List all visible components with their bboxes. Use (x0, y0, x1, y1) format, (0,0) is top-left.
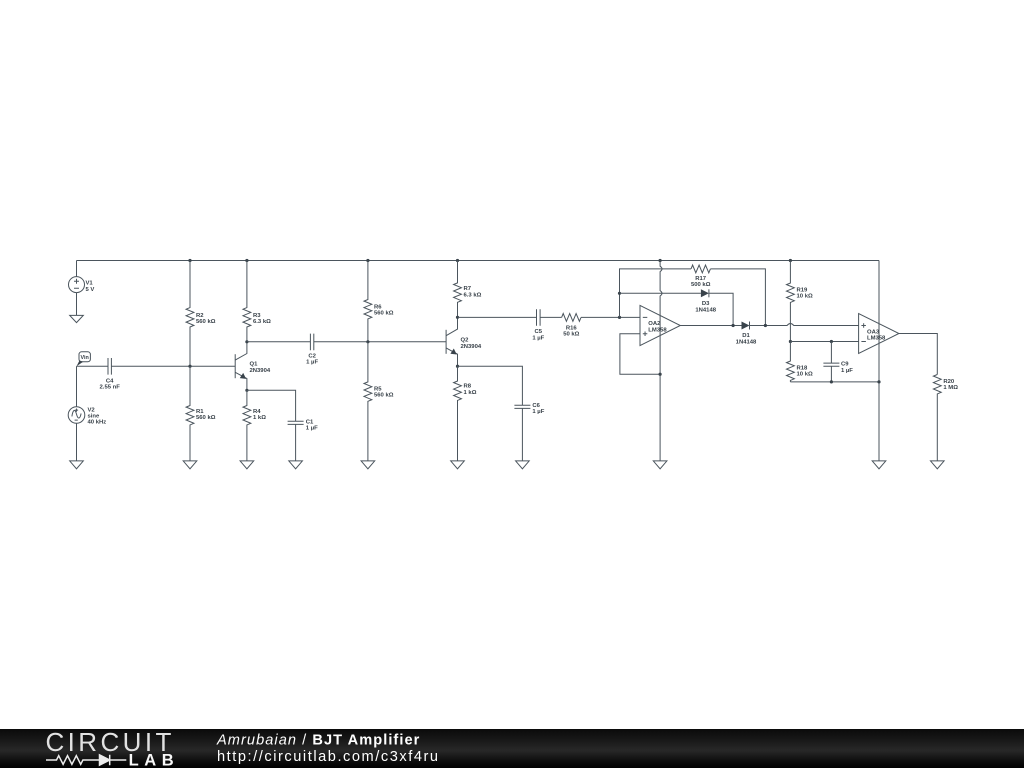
capacitor C2 (306, 334, 318, 366)
svg-text:R6: R6 (374, 304, 382, 310)
svg-text:V1: V1 (86, 281, 94, 287)
wire C6 to ground (521, 408, 523, 461)
svg-text:500 kΩ: 500 kΩ (691, 282, 711, 288)
resistor R17 (691, 265, 711, 288)
wire C1 to ground (295, 424, 297, 461)
resistor R8 (454, 366, 477, 461)
svg-text:Vin: Vin (81, 355, 89, 361)
capacitor C9 (823, 362, 853, 374)
ground below C1 (289, 461, 303, 469)
svg-text:1 µF: 1 µF (532, 409, 544, 415)
svg-text:OA3: OA3 (867, 329, 880, 335)
capacitor C5 (532, 309, 544, 341)
svg-text:560 kΩ: 560 kΩ (196, 319, 216, 325)
wire OA3 output to R20 (899, 334, 937, 375)
node junction C9 bottom (830, 380, 833, 383)
wire V2 bottom lead (76, 423, 78, 461)
wire feedback left riser (620, 269, 692, 318)
node junction base line / divider (188, 365, 191, 368)
capacitor C4 (100, 358, 121, 391)
wire Vin node to C4 (77, 365, 109, 367)
transistor Q2 2N3904 (446, 317, 482, 366)
ground below OA3 (872, 461, 886, 469)
svg-text:560 kΩ: 560 kΩ (374, 311, 394, 317)
capacitor C1 (288, 419, 319, 431)
svg-text:R19: R19 (797, 287, 809, 293)
ground below R1 (183, 461, 197, 469)
node junction V- bottom return (877, 380, 880, 383)
svg-text:R8: R8 (464, 384, 472, 390)
wire C4 to Q1 base (111, 365, 235, 367)
node junction D3 return (732, 324, 735, 327)
wire OA3 V+ through symbol to ground (878, 261, 880, 461)
node Q2 collector junction (456, 316, 459, 319)
wire D3 cathode down to output (709, 293, 733, 325)
node junction OA3 inverting node (789, 340, 792, 343)
svg-text:R16: R16 (566, 326, 578, 332)
ground below V1 (70, 315, 84, 322)
node Q1 collector junction (245, 340, 248, 343)
svg-text:Q1: Q1 (250, 362, 259, 368)
wire D1 cathode to OA3 with hop over R19 column (750, 324, 859, 326)
svg-text:C9: C9 (841, 362, 849, 368)
wire D3 anode branch (620, 292, 701, 294)
svg-text:LM358: LM358 (867, 336, 886, 342)
node junction rail/R19 (789, 259, 792, 262)
svg-text:OA2: OA2 (648, 321, 661, 327)
svg-text:R7: R7 (464, 286, 472, 292)
ground below R4 (240, 461, 254, 469)
ground below OA2 (653, 461, 667, 469)
resistor R18 (787, 342, 813, 382)
op-amp OA3 LM358 (859, 314, 899, 354)
wire OA2 V+ through symbol to ground (660, 261, 662, 461)
wire OA3 inverting input line (790, 341, 858, 343)
wire OA2 noninverting loop (620, 334, 660, 375)
svg-text:560 kΩ: 560 kΩ (374, 393, 394, 399)
svg-text:R18: R18 (797, 365, 809, 371)
svg-text:10 kΩ: 10 kΩ (797, 372, 813, 378)
node Vin label (77, 352, 91, 366)
svg-text:C4: C4 (106, 379, 114, 385)
node junction OA2 Vplus rail (659, 259, 662, 262)
wire C5 to R16 (540, 316, 562, 318)
svg-text:R20: R20 (943, 379, 955, 385)
svg-text:2N3904: 2N3904 (461, 344, 482, 350)
transistor Q1 2N3904 (235, 342, 271, 391)
svg-text:1 µF: 1 µF (306, 426, 318, 432)
node junction rail/R6 (366, 259, 369, 262)
svg-text:C2: C2 (308, 353, 316, 359)
svg-text:1 µF: 1 µF (306, 360, 318, 366)
svg-text:2.55 nF: 2.55 nF (100, 385, 121, 391)
svg-text:D3: D3 (702, 301, 710, 307)
wire OA2 output (680, 325, 741, 327)
resistor R7 (454, 261, 482, 318)
node junction Q2 base divider (366, 340, 369, 343)
svg-text:Q2: Q2 (461, 338, 470, 344)
svg-text:R5: R5 (374, 386, 382, 392)
svg-text:R1: R1 (196, 409, 204, 415)
op-amp OA2 LM358 (640, 305, 680, 345)
svg-text:560 kΩ: 560 kΩ (196, 415, 216, 421)
svg-text:http://circuitlab.com/c3xf4ru: http://circuitlab.com/c3xf4ru (217, 749, 440, 765)
node junction feedback/input (618, 316, 621, 319)
wire V1 bottom lead (76, 293, 78, 316)
ground below C6 (516, 461, 530, 469)
node junction C9 top (830, 340, 833, 343)
resistor R19 (787, 261, 813, 342)
resistor R2 (186, 261, 216, 367)
svg-text:Amrubaian / BJT Amplifier: Amrubaian / BJT Amplifier (216, 733, 420, 749)
svg-text:D1: D1 (742, 333, 750, 339)
svg-text:LAB: LAB (129, 752, 180, 768)
ground below R8 (451, 461, 465, 469)
wire top +5V rail (77, 260, 880, 262)
wire bottom return line (790, 381, 879, 383)
svg-text:R4: R4 (253, 409, 261, 415)
svg-text:C5: C5 (535, 329, 543, 335)
wire R16 to OA2 inverting input (581, 316, 640, 318)
svg-text:40 kHz: 40 kHz (88, 419, 107, 425)
wire C2 to Q2 base (314, 341, 446, 343)
wire C9 upper lead (830, 342, 832, 364)
wire V1 top lead (76, 261, 78, 277)
svg-text:R17: R17 (695, 276, 707, 282)
diode D1 1N4148 (736, 322, 757, 346)
node junction V- loop (659, 373, 662, 376)
node junction rail/R3 (245, 259, 248, 262)
svg-text:1 kΩ: 1 kΩ (464, 390, 477, 396)
ground below V2 (70, 461, 84, 469)
node Q2 emitter junction (456, 365, 459, 368)
resistor R6 (364, 261, 394, 342)
svg-text:1 MΩ: 1 MΩ (943, 385, 958, 391)
node Q1 emitter junction (245, 389, 248, 392)
resistor R5 (364, 342, 394, 461)
node junction rail/R7 (456, 259, 459, 262)
svg-text:1 µF: 1 µF (841, 368, 853, 374)
capacitor C6 (514, 403, 544, 415)
wire R17 to right riser (710, 269, 765, 326)
svg-text:1N4148: 1N4148 (736, 339, 757, 345)
wire collector to C2 (247, 341, 311, 343)
wire C9 lower lead (830, 366, 832, 382)
resistor R4 (243, 390, 266, 461)
resistor R20 (933, 375, 958, 461)
svg-text:C6: C6 (532, 403, 540, 409)
node junction D3 left (618, 292, 621, 295)
svg-text:50 kΩ: 50 kΩ (563, 332, 579, 338)
wire Q2 collector to C5 (458, 316, 537, 318)
svg-text:1 µF: 1 µF (532, 335, 544, 341)
resistor R1 (186, 366, 216, 461)
svg-text:LM358: LM358 (648, 328, 667, 334)
svg-text:R3: R3 (253, 313, 261, 319)
svg-text:C1: C1 (306, 419, 314, 425)
voltage source V1 (69, 277, 95, 293)
wire Vin node down to V2 (76, 366, 78, 407)
wire emitter to C1 (247, 390, 296, 421)
svg-text:5 V: 5 V (86, 287, 95, 293)
voltage source V2 sine (68, 407, 106, 426)
resistor R16 (562, 314, 581, 338)
resistor R3 (243, 261, 271, 342)
logo resistor-diode glyph (46, 755, 126, 765)
wire Q2 emitter to C6 (458, 366, 523, 405)
svg-text:10 kΩ: 10 kΩ (797, 294, 813, 300)
ground below R20 (931, 461, 945, 469)
svg-text:2N3904: 2N3904 (250, 368, 271, 374)
svg-text:6.3 kΩ: 6.3 kΩ (253, 319, 271, 325)
ground below R5 (361, 461, 375, 469)
svg-text:R2: R2 (196, 313, 204, 319)
diode D3 1N4148 (695, 289, 716, 313)
node junction rail/R2 (188, 259, 191, 262)
svg-text:1 kΩ: 1 kΩ (253, 415, 266, 421)
node junction R17 return (764, 324, 767, 327)
svg-text:6.3 kΩ: 6.3 kΩ (464, 292, 482, 298)
svg-text:1N4148: 1N4148 (695, 307, 716, 313)
